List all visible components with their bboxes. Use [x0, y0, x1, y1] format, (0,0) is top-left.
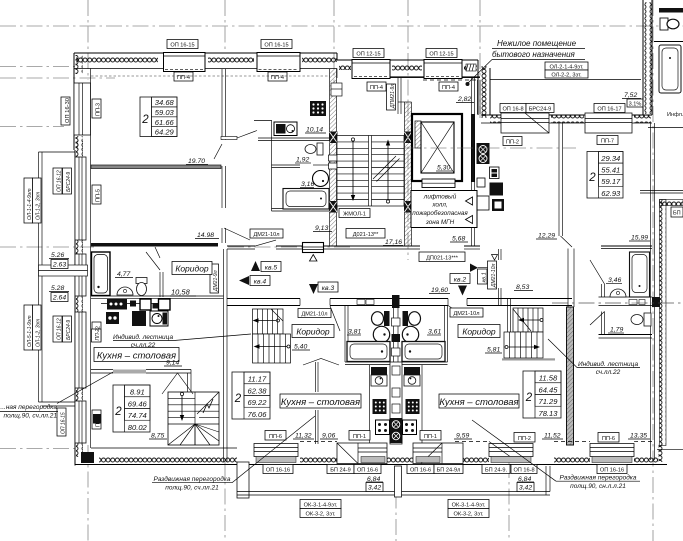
- dim 5.26/2.63: [49, 252, 69, 269]
- dim 8.53: [514, 284, 533, 291]
- hall east wall x471-475: [462, 78, 478, 247]
- svg-text:ОП 16-8: ОП 16-8: [513, 468, 534, 474]
- svg-text:3,81: 3,81: [348, 329, 361, 336]
- sink semicircle right-top: [610, 289, 626, 297]
- label kuhnya-stolovaya kv3: [280, 394, 361, 408]
- sink round bath-right: [402, 326, 418, 342]
- shaft black box west wall lower: [93, 414, 101, 424]
- dim 5.30: [436, 165, 452, 172]
- svg-text:2: 2: [141, 114, 149, 126]
- svg-text:2.63: 2.63: [52, 262, 66, 269]
- label Koridor kv2: [458, 325, 500, 338]
- svg-text:3,16: 3,16: [301, 181, 314, 188]
- label DPM21-9l rotated left corridor: [210, 264, 219, 293]
- svg-text:17,16: 17,16: [385, 239, 402, 246]
- bottom balcony-door unit kv2: [407, 431, 463, 474]
- dim 10.58: [170, 288, 196, 297]
- grid axis vertical x=225 top: [224, 0, 226, 53]
- wall east upper x643-652: [643, 0, 652, 115]
- area table right apt: [587, 152, 623, 199]
- window west W11 y401-443: [57, 401, 102, 443]
- svg-text:ПП-6: ПП-6: [602, 436, 615, 442]
- window OP12-15 W3: [352, 49, 390, 92]
- wall west mid x75-91 with windows and hatch: [75, 140, 91, 457]
- bathtub right-top: [630, 252, 650, 297]
- svg-text:...ная перегородка: ...ная перегородка: [0, 403, 57, 411]
- dim 5.28/2.64: [49, 285, 69, 302]
- duplex stair kv2: [502, 299, 555, 361]
- svg-text:БП: БП: [673, 211, 681, 217]
- partition horizontal y165-168 gray: [91, 165, 221, 169]
- neighbor wall line y449 right: [657, 448, 683, 450]
- dashed line under top wall left: [91, 75, 330, 77]
- svg-text:ДП021-13***: ДП021-13***: [426, 256, 459, 262]
- area table kv2: [523, 371, 561, 418]
- svg-text:3,42: 3,42: [519, 485, 532, 492]
- svg-text:69.22: 69.22: [247, 398, 267, 407]
- svg-text:ОП 16-8: ОП 16-8: [502, 107, 523, 113]
- wall west upper x74-91: [74, 53, 91, 150]
- bathtub apt1: [283, 189, 329, 210]
- svg-text:ОЛ-5-1-1-9эт: ОЛ-5-1-1-9эт: [27, 315, 33, 347]
- svg-text:69.46: 69.46: [128, 399, 148, 408]
- leader from left text to sliding door: [57, 372, 113, 404]
- grid axis vertical x=225 bottom: [224, 462, 226, 541]
- text lift hall MGN: [411, 191, 477, 228]
- area table kv5: [113, 385, 150, 432]
- dim 9.13: [313, 225, 332, 232]
- dim 1.92: [295, 157, 311, 164]
- grid axis vertical x=88: [87, 0, 89, 80]
- grid axis horizontal y=303 right: [552, 302, 683, 304]
- wall top step connector: [337, 53, 352, 78]
- svg-text:Кухня – столовая: Кухня – столовая: [281, 397, 360, 408]
- svg-text:5.28: 5.28: [51, 285, 64, 292]
- svg-text:ПП-3: ПП-3: [96, 103, 102, 116]
- grid axis vertical x=396 bottom: [395, 466, 397, 541]
- sink round bath-left: [373, 326, 389, 342]
- corridor top wall y246-249: [227, 240, 480, 261]
- dim 15.99: [629, 235, 650, 242]
- toilet kv5: [136, 278, 147, 296]
- svg-text:ОП 16-16: ОП 16-16: [266, 468, 290, 474]
- svg-text:полщ.90, сн.л.л.21: полщ.90, сн.л.л.21: [570, 483, 626, 490]
- neighbor toilet top right: [660, 18, 679, 30]
- svg-text:14.98: 14.98: [197, 232, 214, 239]
- svg-text:3,42: 3,42: [368, 485, 381, 492]
- svg-text:ОК-3-2, 3эт.: ОК-3-2, 3эт.: [305, 512, 335, 518]
- svg-text:ПП-4: ПП-4: [442, 85, 455, 91]
- svg-text:ДМ21-10л: ДМ21-10л: [253, 232, 279, 238]
- small boxes on core wall: [329, 155, 338, 161]
- svg-text:5,30: 5,30: [437, 165, 450, 172]
- svg-text:сч.лл.22: сч.лл.22: [596, 369, 621, 376]
- label Koridor kv5: [172, 262, 212, 275]
- svg-text:ДМ21-10л: ДМ21-10л: [491, 264, 497, 288]
- dim 11.32 / 9.06: [293, 433, 314, 440]
- text individ lestnica kv5: [113, 333, 251, 349]
- grid axis horizontal y=126.5 left: [0, 126, 64, 128]
- svg-text:ПП-5: ПП-5: [96, 189, 102, 202]
- svg-text:2,82: 2,82: [457, 96, 471, 103]
- svg-text:62.38: 62.38: [247, 386, 267, 395]
- stove black kv3: [373, 399, 387, 414]
- svg-text:59.17: 59.17: [601, 177, 621, 186]
- svg-text:74.74: 74.74: [128, 411, 147, 420]
- svg-text:61.66: 61.66: [155, 118, 175, 127]
- window west W8 y157-240: [53, 157, 102, 240]
- center bathrooms walls: [345, 306, 448, 365]
- dim 19.70: [186, 158, 208, 165]
- grid axis vertical x=334 top: [333, 0, 335, 95]
- left lower corner wall piece: [75, 443, 94, 466]
- svg-text:ОП 16-17: ОП 16-17: [597, 107, 621, 113]
- svg-text:11.58: 11.58: [539, 374, 558, 383]
- label OL-2 boxes: [490, 62, 641, 80]
- svg-text:7,52: 7,52: [624, 92, 637, 99]
- svg-text:ЖМОЛ-1: ЖМОЛ-1: [343, 212, 366, 218]
- dim 14.98: [195, 232, 219, 239]
- svg-text:71.29: 71.29: [538, 397, 558, 406]
- svg-text:ПП-6: ПП-6: [269, 434, 282, 440]
- balcony side wall left x237-249: [237, 462, 249, 498]
- grid axis horizontal y=78 left: [0, 77, 115, 79]
- svg-text:19,60: 19,60: [431, 287, 448, 294]
- svg-text:БРС24-9: БРС24-9: [66, 320, 72, 340]
- svg-text:БРС24-9: БРС24-9: [66, 172, 72, 192]
- text nezhiloe pomeshenie: [466, 39, 586, 86]
- svg-text:2: 2: [525, 392, 533, 404]
- dim 3.16: [300, 181, 314, 188]
- hob kv3: [376, 420, 390, 435]
- svg-text:ПП-1: ПП-1: [424, 434, 437, 440]
- partition x477.5-480 tambour right: [478, 80, 481, 114]
- text peregorodka left edge: [0, 403, 58, 420]
- bottom window right (OP16-16): [590, 433, 634, 474]
- dim 6.84/3.42 right: [517, 476, 534, 492]
- grid axis vertical x=480 top: [479, 0, 481, 118]
- grid axis vertical x=509 bottom: [508, 462, 510, 541]
- dim 5.40: [292, 344, 310, 351]
- svg-text:2: 2: [234, 393, 242, 405]
- partition kv3 kitchen x315-318: [316, 362, 319, 444]
- label kuhnya-stolovaya kv5: [94, 348, 179, 362]
- svg-text:БП 24-9.: БП 24-9.: [485, 468, 507, 474]
- text razdvizhnaya peregородка center: [152, 416, 315, 492]
- svg-text:ДМ21-10л: ДМ21-10л: [301, 312, 327, 318]
- svg-text:3.1%: 3.1%: [629, 102, 642, 108]
- grid axis horizontal y=303 overlay: [552, 302, 683, 304]
- dim 1.79: [608, 327, 624, 334]
- svg-text:БП 24-9л: БП 24-9л: [437, 468, 461, 474]
- svg-text:5,81: 5,81: [487, 347, 500, 354]
- svg-text:12,29: 12,29: [538, 233, 555, 240]
- svg-text:5,40: 5,40: [294, 344, 307, 351]
- bottom balcony-door unit kv3: [327, 431, 387, 474]
- dim 19.60: [429, 287, 450, 294]
- svg-text:Индивид. лестница: Индивид. лестница: [578, 360, 639, 368]
- bathtub kv5 vertical: [92, 252, 111, 296]
- svg-text:ОЛ-1-2, 3эт: ОЛ-1-2, 3эт: [36, 319, 42, 347]
- right apartment partition x559-562 upper: [559, 123, 572, 247]
- svg-text:ОП 16-12: ОП 16-12: [57, 170, 63, 192]
- svg-text:2.64: 2.64: [52, 295, 66, 302]
- svg-text:ОП 16-6: ОП 16-6: [357, 468, 378, 474]
- dim 5.81: [485, 347, 502, 354]
- bottom window W12 (OP16-16): [254, 431, 298, 474]
- svg-text:Индивид. лестница: Индивид. лестница: [113, 333, 174, 341]
- kitchen counter kv5: [101, 299, 170, 326]
- balcony front edge bottom: [237, 466, 550, 495]
- bottom exterior wall band: [75, 442, 667, 465]
- dim 9.59: [454, 433, 472, 440]
- svg-text:9,14: 9,14: [166, 360, 179, 367]
- window OP12-15 W4: [424, 49, 462, 92]
- svg-text:3,61: 3,61: [428, 329, 441, 336]
- svg-text:29.34: 29.34: [600, 154, 620, 163]
- kitchen sink column kv2: [404, 367, 420, 386]
- hob kv2: [403, 420, 417, 435]
- dim 2.82: [456, 96, 474, 103]
- grid axis vertical x=653 right: [652, 0, 654, 541]
- svg-text:БП 24-9: БП 24-9: [330, 468, 350, 474]
- grid axis horizontal y=66.5 left: [0, 66, 75, 68]
- svg-text:ОП 16-15: ОП 16-15: [170, 43, 194, 49]
- svg-text:ОП 16-6: ОП 16-6: [410, 468, 431, 474]
- label OK-3 boxes left: [300, 500, 341, 518]
- svg-text:78.13: 78.13: [538, 409, 558, 418]
- grid axis horizontal y=148 elevator overlay: [404, 147, 576, 149]
- bottom window kv2 balcony unit (BP24-9/OP16-8): [482, 433, 537, 474]
- svg-text:3,46: 3,46: [608, 277, 621, 284]
- svg-text:8,75: 8,75: [151, 433, 164, 440]
- grid axis horizontal y=26: [0, 25, 683, 27]
- bathtub center-left: [347, 342, 390, 362]
- svg-text:БРС24-9: БРС24-9: [529, 107, 552, 113]
- balcony center divider: [395, 466, 402, 497]
- svg-text:13,35: 13,35: [630, 433, 647, 440]
- core west wall x329-337: [329, 69, 338, 246]
- partition x568-574 kv1/kv2 upper: [568, 249, 574, 308]
- svg-text:зона МГН: зона МГН: [425, 219, 455, 226]
- kitchen appliances right apt (by elevator): [477, 143, 505, 211]
- bathroom right-top walls: [590, 246, 652, 338]
- svg-text:ОК-3-2, 3эт.: ОК-3-2, 3эт.: [453, 512, 483, 518]
- svg-text:ОП 16-12: ОП 16-12: [57, 318, 63, 340]
- svg-text:11.17: 11.17: [248, 375, 267, 384]
- svg-text:2: 2: [588, 172, 596, 184]
- svg-text:1,79: 1,79: [610, 327, 623, 334]
- window OP16-17 W6: [585, 104, 632, 145]
- bathroom west kv5: walls: [91, 247, 224, 298]
- dim 13.35: [628, 433, 650, 440]
- svg-text:кв.1: кв.1: [482, 272, 488, 282]
- dim 3.81 / 3.61: [347, 329, 361, 336]
- area table apartment top-left: [140, 97, 177, 137]
- grid axis horizontal y=448.6 left: [0, 448, 75, 450]
- svg-text:кв.4: кв.4: [254, 279, 267, 286]
- neighbor line y127: [648, 127, 683, 129]
- svg-text:64.45: 64.45: [538, 385, 558, 394]
- label BP right edge: [671, 207, 683, 217]
- svg-text:Раздвижная перегородка: Раздвижная перегородка: [154, 475, 231, 483]
- dim 2.52 + 3.1% top right: [622, 92, 643, 108]
- dim 6.84/3.42 left: [366, 476, 383, 492]
- svg-text:ОП 16-15: ОП 16-15: [61, 412, 67, 434]
- window OP16-15 W2 top: [257, 40, 300, 82]
- wall apartment bottom dark y243-246.5: [91, 243, 218, 247]
- svg-text:ПП-7: ПП-7: [601, 139, 614, 145]
- neighbor bathtub right: [659, 45, 681, 93]
- stair east wall x404-412 with X boxes: [398, 102, 412, 246]
- svg-text:ОП 12-15: ОП 12-15: [356, 52, 380, 58]
- elevator shaft: [412, 114, 462, 188]
- svg-text:8.91: 8.91: [130, 388, 145, 397]
- ceiling break marks: [162, 373, 193, 394]
- svg-text:64.29: 64.29: [155, 128, 175, 137]
- label ZhMOL-1: [339, 209, 370, 218]
- dim 12.29: [536, 233, 557, 240]
- dim 4.77: [115, 271, 133, 278]
- text individ lestnica kv2: [548, 339, 640, 376]
- wall top-right band (lower level y60-78): [352, 60, 480, 80]
- svg-text:5,68: 5,68: [452, 236, 465, 243]
- svg-text:19.70: 19.70: [188, 158, 205, 165]
- svg-text:11,32: 11,32: [295, 433, 312, 440]
- wall right double x650-654: [651, 123, 655, 460]
- svg-text:ДМ21-9л: ДМ21-9л: [213, 270, 219, 292]
- svg-text:2: 2: [114, 406, 122, 418]
- stove black kv2: [406, 399, 420, 414]
- svg-text:4,77: 4,77: [117, 271, 130, 278]
- dim 10.14: [305, 127, 326, 134]
- svg-text:9,06: 9,06: [322, 433, 335, 440]
- svg-text:34.68: 34.68: [155, 98, 175, 107]
- svg-text:10,58: 10,58: [171, 288, 191, 297]
- svg-text:полщ.90, сч.лл.21: полщ.90, сч.лл.21: [165, 485, 219, 492]
- svg-text:ОП 16-15: ОП 16-15: [264, 43, 288, 49]
- neighbor wall black band top right: [659, 8, 683, 13]
- svg-text:5.26: 5.26: [51, 252, 64, 259]
- dim 8.75: [149, 433, 167, 440]
- wall top-right exterior band y115-123: [481, 115, 652, 123]
- svg-text:ОП 12-15: ОП 12-15: [429, 52, 453, 58]
- svg-text:ДПМ21-9л: ДПМ21-9л: [390, 84, 396, 109]
- text razdvizhnaya peregorodka right: [472, 420, 640, 490]
- svg-text:холл,: холл,: [431, 202, 448, 209]
- sliding partition kv5 (wall y369-374): [91, 370, 191, 413]
- toilet right-top: [631, 313, 651, 326]
- kitchen sink column kv3: [371, 367, 387, 386]
- wall neighbor east hatch x660: [660, 200, 683, 446]
- svg-text:Коридор: Коридор: [175, 264, 209, 274]
- svg-text:62.93: 62.93: [601, 189, 621, 198]
- svg-text:кв.2: кв.2: [454, 277, 467, 284]
- toilet bath-right: [403, 311, 421, 326]
- black wall junction right: [652, 297, 660, 307]
- svg-text:55.41: 55.41: [601, 166, 620, 175]
- svg-text:ПП-2: ПП-2: [518, 436, 531, 442]
- svg-text:Коридор: Коридор: [462, 327, 496, 337]
- label kuhnya-stolovaya kv2: [439, 394, 519, 408]
- wall neighbor y191: [640, 191, 683, 194]
- main staircase: [337, 136, 404, 207]
- svg-text:бытового назначения: бытового назначения: [492, 50, 576, 59]
- grid axis vertical x=408: [407, 0, 409, 100]
- svg-text:1,92: 1,92: [296, 157, 309, 164]
- kitchen stove left apt (black grid): [310, 83, 342, 116]
- area table kv3: [232, 372, 270, 419]
- svg-text:ДМ21-10л: ДМ21-10л: [453, 311, 479, 317]
- dim 9.14: [164, 360, 182, 367]
- svg-text:ОЛ-1-2, 3эт: ОЛ-1-2, 3эт: [36, 192, 42, 220]
- svg-text:9,59: 9,59: [456, 433, 469, 440]
- small stair kv4 (L-shaped, kv3 entry): [253, 309, 291, 363]
- svg-text:Нежилое помещение: Нежилое помещение: [497, 39, 577, 48]
- window OP16-8/BRS24-9 W5: [500, 104, 554, 146]
- label PP-2 rotated kv5 kitchen: [92, 329, 102, 342]
- svg-text:лифтовый: лифтовый: [423, 193, 457, 201]
- svg-text:9,13: 9,13: [315, 225, 328, 232]
- svg-text:кв.5: кв.5: [265, 265, 278, 272]
- svg-text:Кухня – столовая: Кухня – столовая: [439, 397, 518, 408]
- wc walls top-left apt: [254, 120, 329, 211]
- sink round bathroom1: [313, 171, 329, 187]
- neighbor line y42: [654, 41, 683, 43]
- svg-text:ОК-3-1-4-9эт.: ОК-3-1-4-9эт.: [452, 503, 486, 509]
- label OK-3 boxes right: [448, 500, 489, 518]
- corridor core wall x227 (vertical): [224, 249, 228, 462]
- label DM21-10l kv3 door: [298, 309, 331, 318]
- svg-text:ПП-2: ПП-2: [506, 140, 519, 146]
- corridor bottom wall y298-306: [227, 299, 572, 332]
- kitchen sink left apt: [274, 122, 297, 136]
- svg-text:ПП-2: ПП-2: [95, 329, 101, 341]
- svg-text:Кухня – столовая: Кухня – столовая: [97, 351, 176, 362]
- label DM21-10l top corridor: [250, 229, 283, 238]
- wall vertical step at x478-490: [478, 60, 490, 118]
- svg-text:ОП 16-30: ОП 16-30: [65, 98, 71, 123]
- dim 3.46: [606, 277, 622, 284]
- counter edges bottom kitchens: [369, 365, 371, 443]
- partition top entry x398-401: [387, 78, 402, 114]
- svg-text:ОЛ-1-1-4-9эт: ОЛ-1-1-4-9эт: [27, 188, 33, 220]
- toilet wc1: [305, 143, 323, 155]
- svg-text:11,52: 11,52: [544, 433, 561, 440]
- balcony west outline: [39, 152, 76, 406]
- grid axis horizontal y=247 left: [0, 246, 94, 248]
- svg-text:80.02: 80.02: [128, 423, 148, 432]
- label OL-5 boxes left lower: [24, 305, 42, 350]
- toilet bath-left: [372, 311, 390, 326]
- svg-text:Коридор: Коридор: [296, 327, 330, 337]
- svg-text:Д021-13**: Д021-13**: [353, 232, 379, 238]
- bathtub center-right: [402, 342, 445, 362]
- svg-text:ОК-3-1-4-9эт.: ОК-3-1-4-9эт.: [304, 503, 338, 509]
- svg-text:Инфл.: Инфл.: [667, 112, 683, 118]
- label DM21-10l kv2 door: [450, 308, 483, 317]
- svg-text:ПП-1: ПП-1: [353, 434, 366, 440]
- sink semicircle kv5: [117, 287, 133, 295]
- balcony divider band y265-276: [39, 265, 88, 276]
- svg-text:Раздвижная перегородка: Раздвижная перегородка: [560, 474, 637, 482]
- svg-text:ОЛ-2-2, 3эт.: ОЛ-2-2, 3эт.: [551, 73, 582, 79]
- dim 11.52: [542, 433, 563, 440]
- grid axis vertical x408 overlay: [407, 100, 409, 260]
- svg-text:пожаробезопасная: пожаробезопасная: [412, 209, 468, 217]
- svg-text:10,14: 10,14: [306, 127, 323, 134]
- svg-text:76.06: 76.06: [247, 410, 267, 419]
